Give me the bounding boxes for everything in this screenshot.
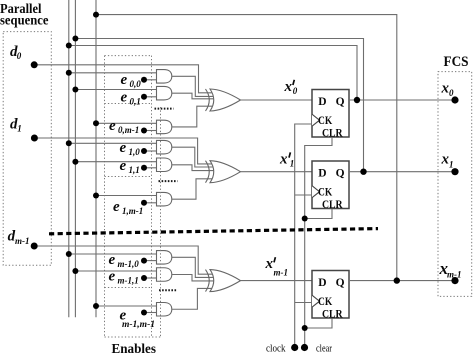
wire: enable input stub A10 bbox=[144, 150, 157, 152]
node: feedback joins bus 2 bbox=[72, 36, 78, 42]
node: bus tap A01 bbox=[72, 87, 78, 93]
wire: bus tap to AND A00 input A bbox=[69, 72, 157, 74]
wire: feedback x_m-1 to bus 3 bbox=[96, 15, 397, 281]
svg-text:0: 0 bbox=[293, 86, 298, 96]
node: x_m-1 feedback junction bbox=[394, 277, 400, 283]
node: enable e terminal A10 bbox=[141, 148, 147, 154]
wire: data bus line 1 (d0/x0) bbox=[68, 0, 70, 317]
wire: FF1 Q output to x_0 bbox=[349, 99, 455, 101]
node: d_0 terminal bbox=[31, 61, 38, 68]
wire: FF2 CK tap bbox=[295, 194, 312, 196]
node: x_0 feedback junction bbox=[354, 97, 360, 103]
wire: d_1 input to XOR U2 bbox=[34, 138, 214, 164]
node: d_1 terminal bbox=[31, 135, 38, 142]
svg-text:D: D bbox=[318, 168, 326, 180]
node: x_1 feedback junction bbox=[360, 169, 366, 175]
wire: FF2 CLR to clear bus bbox=[305, 209, 332, 219]
wire: AND Amm output to XOR bbox=[172, 288, 214, 309]
wire: d_0 input to XOR U1 bbox=[34, 65, 214, 93]
svg-text:m-1,m-1: m-1,m-1 bbox=[122, 319, 155, 329]
wire: AND A0m output to XOR bbox=[172, 106, 214, 127]
svg-text:0,1: 0,1 bbox=[130, 97, 141, 107]
xor-gate U3 (x'_m-1) bbox=[210, 270, 241, 292]
wire: AND A11 output to XOR bbox=[172, 165, 214, 171]
node: clear junction FF3 bbox=[302, 325, 308, 331]
svg-text:Q: Q bbox=[336, 168, 345, 180]
wire: clock bus bbox=[295, 124, 312, 348]
node: feedback joins bus 3 bbox=[93, 12, 99, 18]
node: bus tap Am0 bbox=[66, 251, 72, 257]
xor-gate U2 (x'_1) bbox=[210, 161, 241, 183]
svg-text:e: e bbox=[109, 252, 116, 268]
svg-text:sequence: sequence bbox=[0, 12, 49, 27]
node: x_m-1 output terminal bbox=[451, 277, 458, 284]
dashed divider group 2 bbox=[105, 176, 152, 178]
wire: FF3 Q output to x_m-1 bbox=[349, 280, 455, 282]
svg-text:e: e bbox=[121, 72, 128, 88]
wire: enable input stub A00 bbox=[144, 79, 157, 81]
wire: data bus line 3 (dm-1/xm-1) bbox=[95, 0, 97, 317]
dashed divider group 1 bbox=[105, 103, 152, 105]
wire: bus tap to AND A01 input A bbox=[75, 89, 156, 91]
and-gate Amm bbox=[157, 303, 172, 317]
wire: bus tap to AND Am1 input A bbox=[75, 270, 156, 272]
wire: AND A1m output to XOR bbox=[172, 179, 214, 199]
node: enable e terminal A0m bbox=[141, 128, 147, 134]
wire: FF3 CK tap bbox=[295, 302, 312, 304]
svg-text:m-1: m-1 bbox=[15, 236, 30, 246]
svg-text:Enables: Enables bbox=[112, 341, 157, 356]
node: enable e terminal A1m bbox=[141, 200, 147, 206]
node: bus tap A0m bbox=[93, 120, 99, 126]
wire: FF3 CLR to clear bus bbox=[305, 319, 332, 329]
svg-text:CK: CK bbox=[318, 187, 332, 199]
node: enable e terminal A00 bbox=[141, 77, 147, 83]
node: enable e terminal Am0 bbox=[141, 258, 147, 264]
and-gate Am1 bbox=[157, 268, 172, 282]
node: bus tap Amm bbox=[93, 303, 99, 309]
wire: FF1 CLR to clear bus bbox=[305, 137, 332, 348]
flip-flop FF2 (x_1) bbox=[312, 161, 349, 209]
and-gate Am0 bbox=[157, 251, 172, 264]
dashed box inner edge: Enables group bbox=[151, 56, 153, 337]
svg-text:D: D bbox=[318, 277, 326, 289]
svg-text:e: e bbox=[113, 199, 120, 215]
dashed box top edge: Enables group bbox=[105, 55, 152, 57]
svg-text:Q: Q bbox=[336, 277, 345, 289]
node: x_1 output terminal bbox=[451, 168, 458, 175]
wire: AND Am0 output to XOR bbox=[172, 257, 214, 277]
svg-text:Q: Q bbox=[336, 96, 345, 108]
wire: XOR U2 output to FF2 D bbox=[241, 171, 313, 173]
svg-text:CLR: CLR bbox=[322, 309, 343, 321]
wire: bus tap to AND Am0 input A bbox=[69, 253, 157, 255]
node: feedback joins bus 1 bbox=[66, 43, 72, 49]
dashed box bottom edge: Enables group bbox=[105, 336, 162, 338]
wire: XOR U1 output to FF1 D bbox=[241, 99, 313, 101]
svg-text:m-1,0: m-1,0 bbox=[118, 259, 140, 269]
node: bus tap A10 bbox=[66, 140, 72, 146]
wire: enable input stub Am1 bbox=[144, 277, 157, 279]
svg-text:x: x bbox=[284, 79, 293, 95]
node: x_0 output terminal bbox=[451, 96, 458, 103]
ellipsis dots group 2 bbox=[159, 180, 178, 182]
xor-gate U1 (x'_0) bbox=[210, 89, 241, 111]
svg-text:1: 1 bbox=[290, 158, 295, 168]
dashed box left edge: Enables group bbox=[104, 56, 106, 337]
ellipsis dots group 1 bbox=[155, 108, 174, 110]
wire: AND A10 output to XOR bbox=[172, 147, 214, 167]
flip-flop FF3 (x_m-1) bbox=[312, 271, 349, 319]
svg-text:CK: CK bbox=[318, 115, 332, 127]
wire: AND A00 output to XOR bbox=[172, 76, 214, 96]
wire: enable input stub A0m bbox=[144, 130, 157, 132]
and-gate A0m bbox=[157, 120, 172, 133]
svg-text:CLR: CLR bbox=[322, 199, 343, 211]
wire: bus tap to AND A0m input A bbox=[96, 122, 157, 124]
svg-text:0: 0 bbox=[449, 88, 454, 98]
wire: AND Am1 output to XOR bbox=[172, 275, 214, 281]
svg-text:1,0: 1,0 bbox=[129, 147, 141, 157]
svg-text:FCS: FCS bbox=[444, 54, 469, 70]
svg-text:m-1,1: m-1,1 bbox=[118, 276, 139, 286]
svg-text:e: e bbox=[109, 269, 116, 285]
svg-text:m-1: m-1 bbox=[274, 268, 289, 278]
dashed box right edge: Enables group bbox=[160, 107, 162, 337]
wire: feedback x_0 to bus 1 bbox=[69, 46, 357, 101]
node: clock terminal bbox=[291, 344, 298, 351]
and-gate A1m bbox=[157, 192, 172, 206]
wire: d_m-1 input to XOR U3 bbox=[34, 246, 214, 274]
and-gate A11 bbox=[157, 158, 172, 172]
svg-text:1,m-1: 1,m-1 bbox=[122, 206, 143, 216]
svg-text:e: e bbox=[121, 90, 128, 106]
svg-text:1: 1 bbox=[17, 124, 22, 134]
and-gate A01 bbox=[157, 86, 172, 100]
and-gate A10 bbox=[157, 140, 172, 154]
dashed divider group 3 bbox=[105, 287, 152, 289]
ellipsis dots group 3 bbox=[159, 289, 177, 291]
wire: FF2 Q output to x_1 bbox=[349, 171, 455, 173]
and-gate A00 bbox=[157, 70, 172, 84]
svg-text:e: e bbox=[120, 140, 127, 156]
wire: enable input stub A1m bbox=[144, 202, 157, 204]
node: enable e terminal Amm bbox=[141, 310, 147, 316]
node: clear terminal bbox=[301, 344, 308, 351]
node: clear junction FF2 bbox=[302, 216, 308, 222]
wire: enable input stub A01 bbox=[144, 96, 157, 98]
wire: bus tap to AND Amm input A bbox=[96, 305, 157, 307]
svg-text:CK: CK bbox=[318, 296, 332, 308]
wire: enable input stub Am0 bbox=[144, 260, 157, 262]
node: bus tap A00 bbox=[66, 70, 72, 76]
node: enable e terminal A01 bbox=[141, 94, 147, 100]
node: enable e terminal Am1 bbox=[141, 275, 147, 281]
wire: enable input stub Amm bbox=[144, 312, 157, 314]
wire: data bus line 2 (d1/x1) bbox=[74, 0, 76, 317]
flip-flop FF1 (x_0) bbox=[312, 90, 349, 138]
node: bus tap Am1 bbox=[72, 268, 78, 274]
svg-text:0,m-1: 0,m-1 bbox=[118, 125, 139, 135]
svg-text:e: e bbox=[109, 118, 116, 134]
dashed box: Parallel sequence input group bbox=[3, 32, 51, 266]
dashed box: FCS output group bbox=[438, 72, 472, 297]
wire: bus tap to AND A10 input A bbox=[69, 142, 157, 144]
svg-text:CLR: CLR bbox=[322, 128, 343, 140]
node: d_m-1 terminal bbox=[31, 243, 38, 250]
wire: bus tap to AND A11 input A bbox=[75, 161, 156, 163]
svg-text:clock: clock bbox=[266, 343, 286, 355]
node: bus tap A11 bbox=[72, 159, 78, 165]
svg-text:1,1: 1,1 bbox=[129, 165, 140, 175]
wire: AND A01 output to XOR bbox=[172, 93, 214, 99]
thick dashed separator bbox=[49, 229, 378, 234]
svg-text:x: x bbox=[265, 256, 274, 272]
svg-text:x: x bbox=[279, 152, 288, 168]
svg-text:0,0: 0,0 bbox=[130, 79, 142, 89]
svg-text:clear: clear bbox=[316, 343, 332, 355]
wire: feedback x_1 to bus 2 bbox=[75, 39, 363, 172]
node: bus tap A1m bbox=[93, 193, 99, 199]
wire: XOR U3 output to FF3 D bbox=[241, 280, 313, 282]
svg-text:D: D bbox=[318, 96, 326, 108]
svg-text:e: e bbox=[120, 158, 127, 174]
svg-text:1: 1 bbox=[449, 160, 454, 170]
node: enable e terminal A11 bbox=[141, 165, 147, 171]
wire: bus tap to AND A1m input A bbox=[96, 195, 157, 197]
wire: enable input stub A11 bbox=[144, 167, 157, 169]
svg-text:0: 0 bbox=[17, 51, 22, 61]
